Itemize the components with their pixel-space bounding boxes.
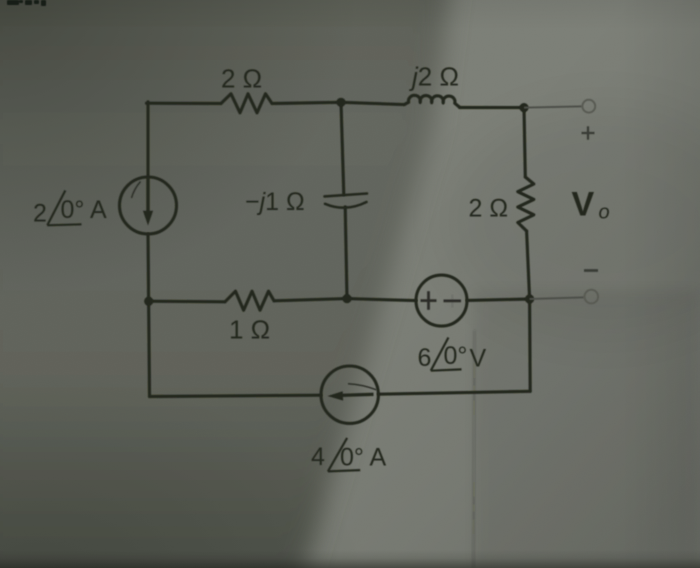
resistor R2 2ohm vertical zigzag	[518, 177, 534, 231]
capacitor C1 top plate	[325, 194, 368, 197]
minus sign at Vo bottom	[584, 269, 598, 272]
wire: node C to R3	[149, 300, 225, 304]
wire: left vertical top segment (node TL corner to I1 top)	[146, 102, 149, 177]
voltage source V1 circle	[416, 275, 467, 326]
film grain	[0, 0, 1, 1]
wire: bottom horizontal left (corner to I2)	[150, 395, 322, 396]
terminal: top open circle	[582, 100, 595, 113]
dark strip at bottom edge	[0, 550, 700, 568]
voltage source V1 plus sign	[421, 291, 462, 310]
wire: R3 to node E	[274, 299, 347, 301]
stray mark inside I1	[132, 182, 141, 199]
wire: top-left horizontal (corner to R1)	[147, 102, 222, 105]
terminal: bottom open circle	[585, 290, 599, 304]
wire: bottom horizontal right (I2 to bottom-right corner)	[379, 391, 531, 394]
label: 4 angle 0 A (I2)	[311, 438, 386, 472]
resistor R3 1ohm zigzag	[225, 291, 274, 310]
cropped text marks at top-left	[7, 0, 46, 6]
label: 6 angle 0 V (V1)	[418, 338, 487, 373]
wire: stub to top output terminal	[524, 106, 582, 107]
resistor R1 2ohm zigzag	[221, 94, 272, 113]
wire: node E to V1 left terminal	[347, 299, 416, 301]
wire: left vertical bottom segment (I1 bottom to bottom-left corner)	[148, 234, 150, 397]
voltage source V1 minus sign	[444, 300, 462, 303]
current source I1 arrow	[132, 178, 154, 226]
wire: V1 right terminal to node D	[467, 299, 530, 300]
node C dot	[144, 297, 153, 306]
wire: stub to bottom output terminal	[530, 297, 584, 299]
shadowed left region of paper	[0, 0, 453, 568]
capacitor C1 bottom plate (curved)	[325, 202, 367, 208]
node D dot	[525, 294, 534, 303]
page crease line lower right	[474, 330, 475, 568]
current source I1 circle	[120, 177, 177, 234]
wire: R1 to node A	[272, 102, 341, 103]
node A dot	[336, 98, 345, 107]
label: Vo output voltage	[572, 186, 610, 224]
wire: node B down to R2	[524, 108, 525, 177]
capacitor C1 bottom lead (plate down to node E)	[345, 207, 347, 299]
wire: node D down to bottom-right corner	[528, 299, 532, 392]
current source I2 circle	[321, 366, 378, 423]
plus sign at Vo top	[582, 126, 595, 139]
wire: L1 to node B	[460, 106, 525, 109]
label: 2 angle 0 A (I1)	[33, 191, 107, 228]
top edge darkening	[0, 0, 700, 30]
wire: R2 to node D	[527, 231, 530, 299]
node E dot	[342, 294, 351, 303]
node B dot	[519, 103, 528, 112]
capacitor C1 top lead (node A down to plate)	[341, 102, 344, 194]
soft shading right-middle	[445, 105, 700, 335]
stray mark inside I2	[348, 384, 377, 390]
wire: node A to L1	[341, 102, 405, 104]
inductor L1 j2ohm bumps	[404, 95, 460, 107]
current source I2 arrow (points left)	[328, 384, 377, 401]
page region right of crease slightly darker	[474, 290, 700, 568]
